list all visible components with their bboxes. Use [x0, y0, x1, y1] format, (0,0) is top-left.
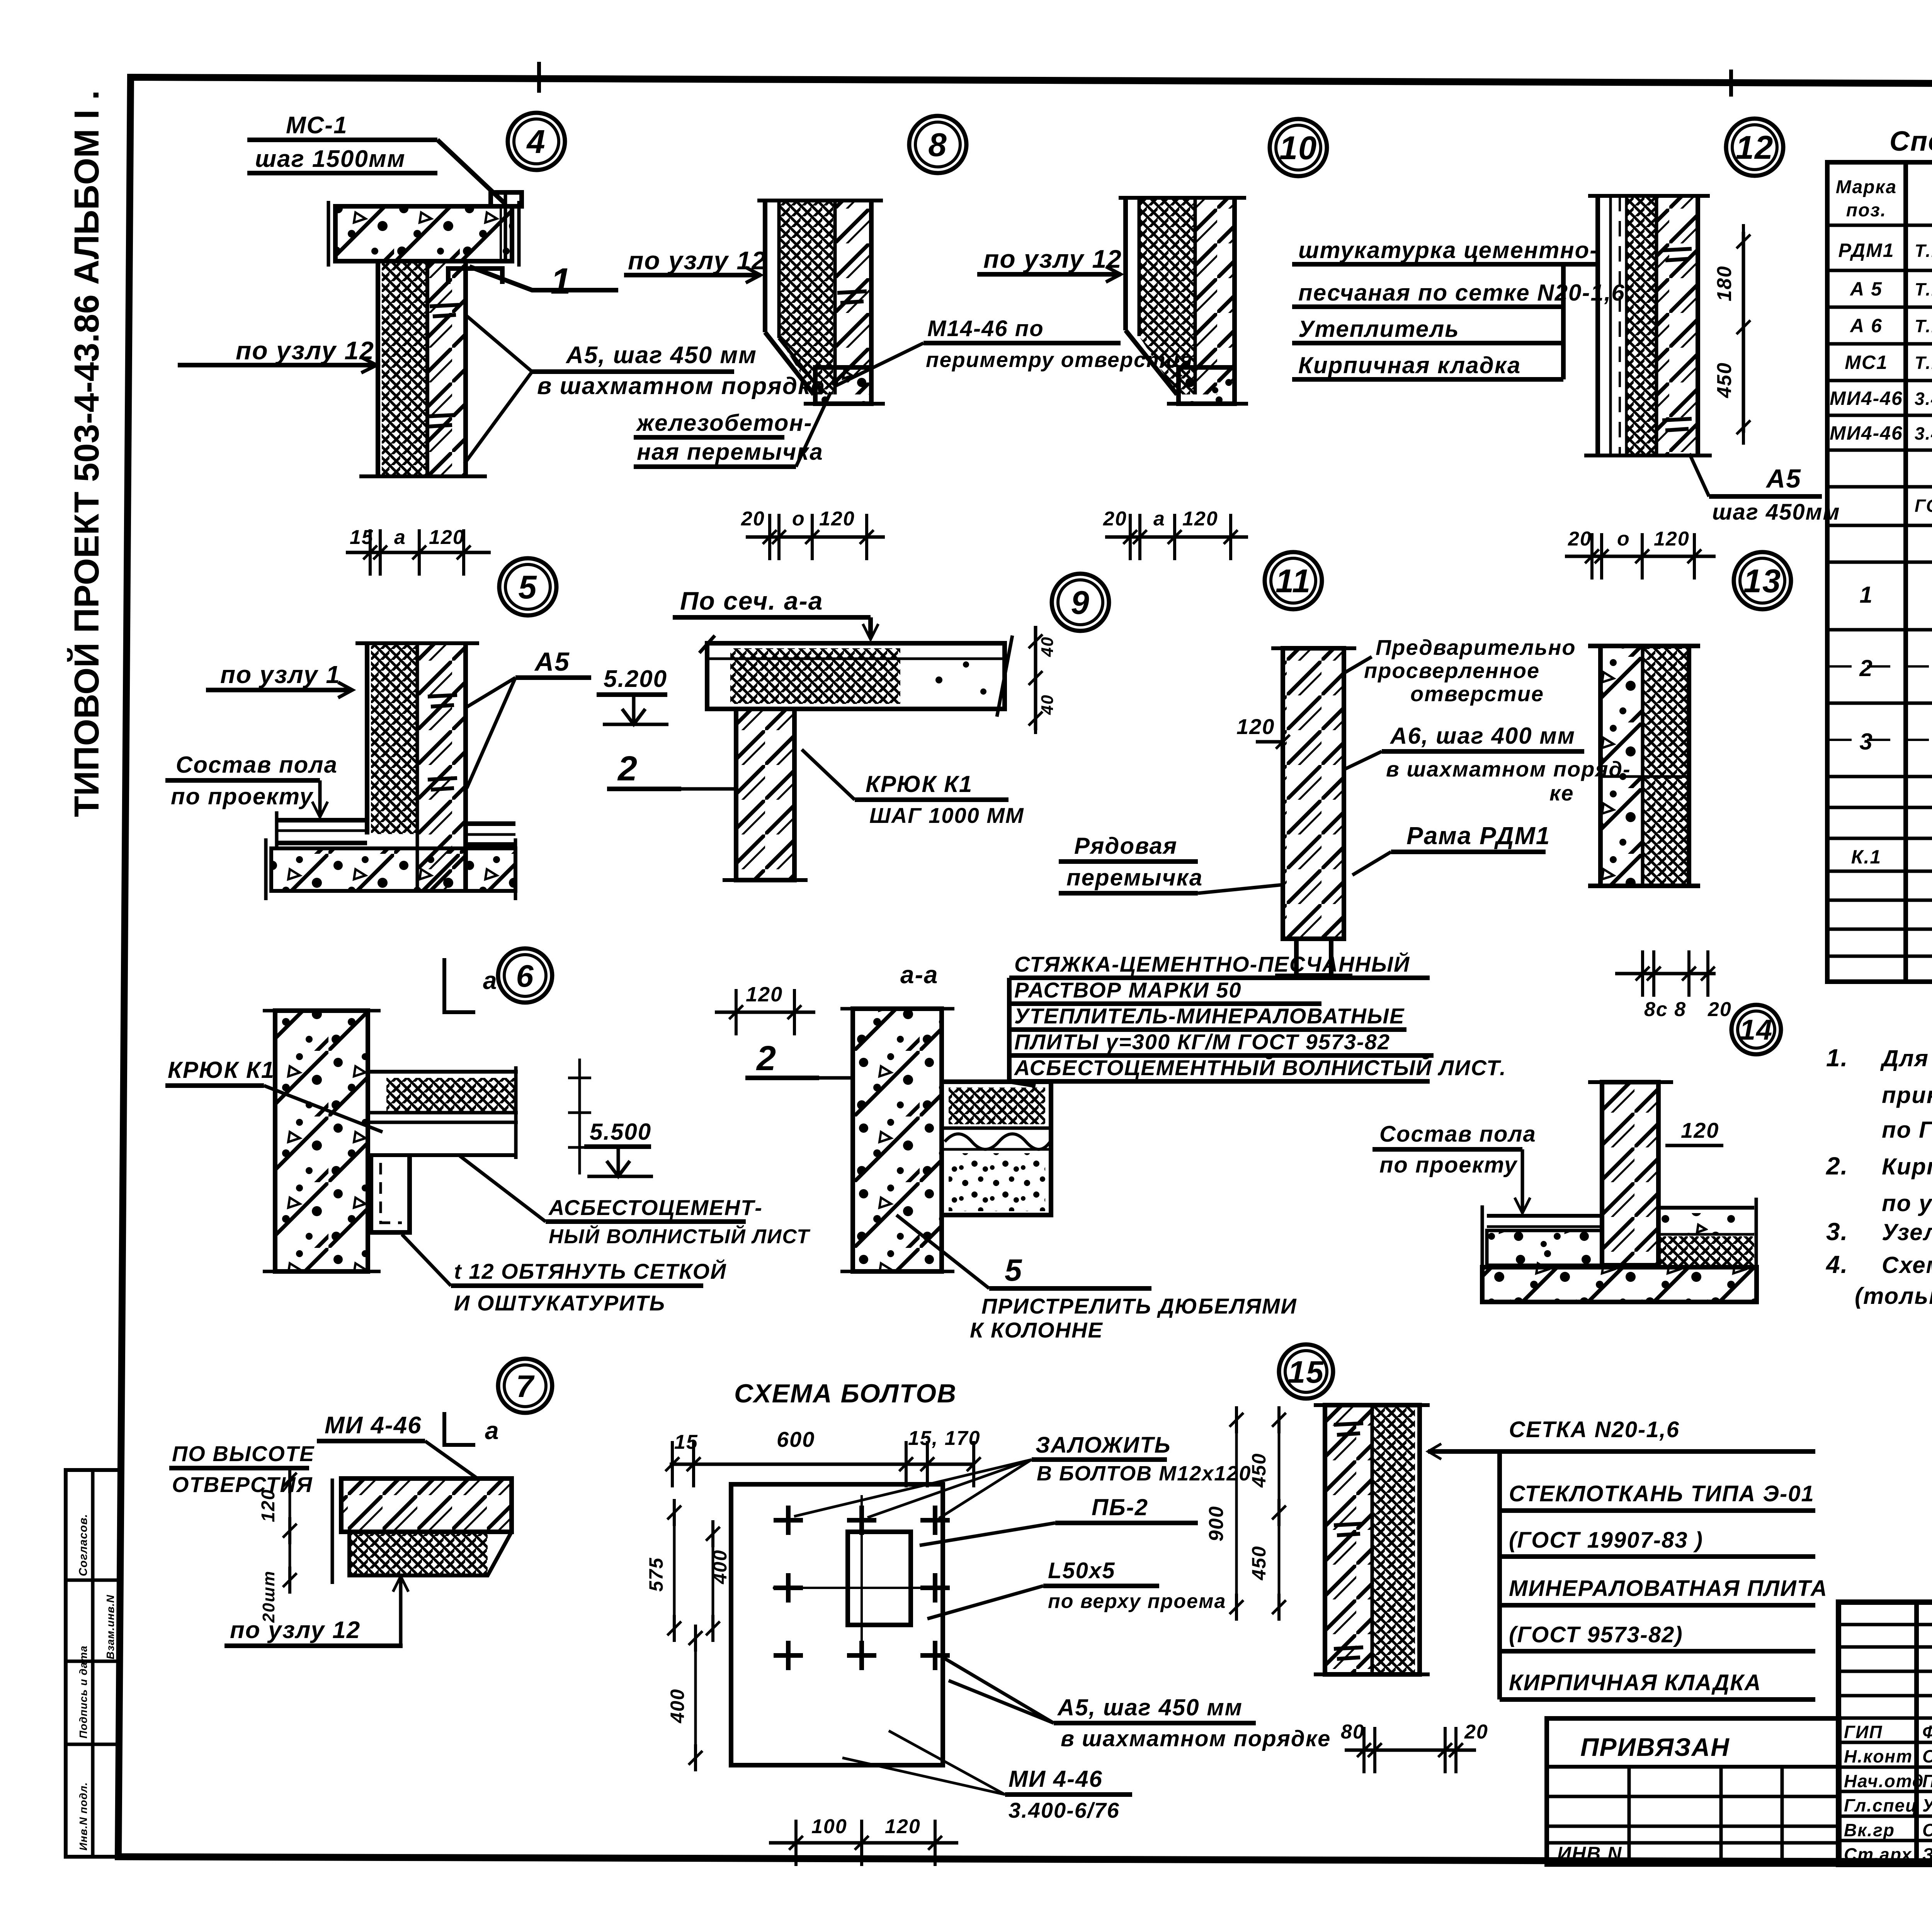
svg-text:СТЯЖКА-ЦЕМЕНТНО-ПЕСЧАННЫЙ: СТЯЖКА-ЦЕМЕНТНО-ПЕСЧАННЫЙ — [1014, 952, 1410, 976]
svg-text:МИ 4-46: МИ 4-46 — [325, 1412, 422, 1439]
svg-text:2.: 2. — [1826, 1152, 1848, 1180]
svg-text:СХЕМА БОЛТОВ: СХЕМА БОЛТОВ — [734, 1379, 957, 1408]
svg-text:ШАГ 1000 ММ: ШАГ 1000 ММ — [869, 803, 1024, 828]
svg-text:4.: 4. — [1825, 1251, 1848, 1278]
svg-text:20: 20 — [1568, 528, 1592, 550]
svg-text:Рама РДМ1: Рама РДМ1 — [1406, 822, 1550, 850]
svg-text:20: 20 — [1464, 1721, 1488, 1743]
svg-text:1.: 1. — [1826, 1044, 1848, 1072]
svg-text:о: о — [1617, 528, 1630, 550]
svg-text:14: 14 — [1740, 1014, 1773, 1046]
svg-text:А6, шаг 400 мм: А6, шаг 400 мм — [1389, 723, 1575, 749]
svg-text:АСБЕСТОЦЕМЕНТНЫЙ ВОЛНИСТЫЙ ЛИ: АСБЕСТОЦЕМЕНТНЫЙ ВОЛНИСТЫЙ ЛИСТ. — [1014, 1055, 1507, 1080]
svg-text:7: 7 — [516, 1369, 535, 1404]
svg-text:шаг 450мм: шаг 450мм — [1712, 500, 1840, 525]
svg-text:по ГОСТ 9573 -82: по ГОСТ 9573 -82 — [1882, 1117, 1932, 1143]
svg-text:20: 20 — [741, 508, 765, 530]
svg-text:в шахматном порядке: в шахматном порядке — [537, 373, 825, 399]
svg-text:3: 3 — [1859, 729, 1873, 755]
svg-text:М14-46 по: М14-46 по — [927, 316, 1044, 341]
svg-text:2: 2 — [756, 1039, 777, 1078]
svg-text:5.500: 5.500 — [590, 1119, 651, 1145]
svg-text:в шахматном поряд-: в шахматном поряд- — [1386, 757, 1631, 781]
svg-text:400: 400 — [667, 1689, 688, 1723]
svg-text:шаг 1500мм: шаг 1500мм — [255, 146, 406, 172]
svg-text:МС-1: МС-1 — [286, 112, 348, 139]
svg-text:а: а — [1153, 508, 1165, 530]
svg-text:10: 10 — [1279, 130, 1318, 167]
svg-text:6: 6 — [516, 959, 534, 994]
svg-text:40: 40 — [1038, 694, 1057, 715]
svg-text:L50х5: L50х5 — [1048, 1558, 1115, 1583]
svg-text:ИНВ.N: ИНВ.N — [1557, 1843, 1622, 1864]
svg-text:К КОЛОННЕ: К КОЛОННЕ — [970, 1318, 1103, 1342]
svg-text:ке: ке — [1549, 781, 1574, 805]
svg-text:по узлу 2 на листе 9: по узлу 2 на листе 9 — [1882, 1190, 1932, 1216]
svg-text:Т.П 503-4-43.86-КЖ-А5: Т.П 503-4-43.86-КЖ-А5 — [1915, 279, 1932, 299]
svg-text:по проекту: по проекту — [171, 783, 314, 809]
svg-text:КРЮК К1: КРЮК К1 — [168, 1057, 275, 1083]
svg-text:ГИП: ГИП — [1844, 1722, 1883, 1742]
svg-text:по узлу 12: по узлу 12 — [983, 245, 1122, 273]
svg-text:120: 120 — [258, 1489, 279, 1522]
svg-text:РАСТВОР МАРКИ 50: РАСТВОР МАРКИ 50 — [1014, 978, 1242, 1002]
svg-text:Нач.отд: Нач.отд — [1844, 1771, 1924, 1791]
svg-text:Удали: Удали — [1922, 1795, 1932, 1815]
svg-text:а: а — [483, 967, 498, 994]
svg-text:МИ4-46: МИ4-46 — [1830, 387, 1903, 409]
svg-text:песчаная по сетке N20-1,6: песчаная по сетке N20-1,6 — [1298, 280, 1625, 306]
svg-text:ПБ-2: ПБ-2 — [1092, 1494, 1148, 1520]
svg-text:5: 5 — [518, 569, 537, 606]
svg-text:приняты минераловатные плиты: приняты минераловатные плиты γ=300 кг/м — [1882, 1082, 1932, 1108]
svg-text:20: 20 — [1708, 998, 1732, 1021]
svg-text:8с 8: 8с 8 — [1644, 998, 1686, 1021]
svg-text:180: 180 — [1713, 265, 1736, 301]
svg-text:Гл.спец: Гл.спец — [1844, 1795, 1918, 1815]
svg-text:120: 120 — [1236, 714, 1275, 739]
svg-text:по верху проема: по верху проема — [1048, 1590, 1226, 1613]
svg-text:Т.П 503-4-43.86-КЖ-МС1: Т.П 503-4-43.86-КЖ-МС1 — [1915, 353, 1932, 373]
svg-text:900: 900 — [1205, 1506, 1228, 1541]
svg-text:по узлу 12: по узлу 12 — [628, 246, 767, 275]
svg-text:13: 13 — [1743, 563, 1782, 600]
svg-text:3.400-6/76: 3.400-6/76 — [1009, 1798, 1120, 1822]
svg-text:по узлу 12: по узлу 12 — [236, 336, 374, 365]
svg-text:2: 2 — [1859, 655, 1873, 681]
svg-text:120: 120 — [885, 1815, 921, 1838]
svg-text:ная перемычка: ная перемычка — [637, 439, 823, 465]
svg-text:К.1: К.1 — [1851, 846, 1881, 868]
svg-text:5: 5 — [1005, 1253, 1023, 1287]
svg-text:И ОШТУКАТУРИТЬ: И ОШТУКАТУРИТЬ — [454, 1291, 665, 1315]
svg-text:ЗАЛОЖИТЬ: ЗАЛОЖИТЬ — [1036, 1433, 1171, 1458]
svg-text:Схема болтов дана для отверсти: Схема болтов дана для отверстий размером… — [1882, 1252, 1932, 1278]
svg-text:Т.П.503-4-43.86-КЖ-РДМ1: Т.П.503-4-43.86-КЖ-РДМ1 — [1915, 241, 1932, 261]
svg-text:Строкова: Строкова — [1922, 1820, 1932, 1840]
svg-text:КРЮК К1: КРЮК К1 — [866, 771, 973, 797]
svg-text:СЕТКА N20-1,6: СЕТКА N20-1,6 — [1509, 1417, 1680, 1442]
svg-text:120: 120 — [429, 526, 465, 549]
svg-text:Кирпичные перегородки венткаме: Кирпичные перегородки венткамер армирова… — [1882, 1154, 1932, 1179]
svg-text:ГОСТ 8423-75: ГОСТ 8423-75 — [1915, 496, 1932, 516]
svg-text:Согласов.: Согласов. — [77, 1514, 90, 1576]
svg-text:Фомкер: Фомкер — [1922, 1722, 1932, 1742]
svg-text:А5: А5 — [1765, 464, 1801, 493]
svg-text:Инв.N подл.: Инв.N подл. — [77, 1782, 89, 1851]
svg-text:МИ 4-46: МИ 4-46 — [1009, 1766, 1103, 1792]
svg-text:575: 575 — [645, 1557, 667, 1592]
svg-text:ПО ВЫСОТЕ: ПО ВЫСОТЕ — [172, 1441, 315, 1466]
svg-text:3.400-6/76: 3.400-6/76 — [1915, 389, 1932, 409]
svg-text:Н.конт: Н.конт — [1844, 1746, 1913, 1766]
svg-text:15: 15 — [1288, 1355, 1324, 1390]
svg-text:КИРПИЧНАЯ КЛАДКА: КИРПИЧНАЯ КЛАДКА — [1509, 1670, 1762, 1695]
svg-text:Т.П. 503-4-43.86-КЖ-А6: Т.П. 503-4-43.86-КЖ-А6 — [1915, 316, 1932, 336]
svg-text:а: а — [394, 526, 406, 549]
svg-text:t 12 ОБТЯНУТЬ СЕТКОЙ: t 12 ОБТЯНУТЬ СЕТКОЙ — [454, 1259, 726, 1283]
svg-text:80: 80 — [1341, 1721, 1365, 1743]
svg-text:в шахматном порядке: в шахматном порядке — [1061, 1726, 1331, 1751]
svg-text:40: 40 — [1038, 636, 1057, 657]
svg-text:Утеплитель: Утеплитель — [1298, 316, 1459, 342]
svg-text:3.: 3. — [1826, 1218, 1848, 1246]
svg-text:УТЕПЛИТЕЛЬ-МИНЕРАЛОВАТНЫЕ: УТЕПЛИТЕЛЬ-МИНЕРАЛОВАТНЫЕ — [1014, 1004, 1405, 1028]
svg-text:просверленное: просверленное — [1364, 658, 1540, 683]
svg-text:МС1: МС1 — [1845, 352, 1888, 373]
svg-text:НЫЙ ВОЛНИСТЫЙ ЛИСТ: НЫЙ ВОЛНИСТЫЙ ЛИСТ — [549, 1225, 811, 1248]
svg-text:ПЛИТЫ γ=300 КГ/М ГОСТ 9573-82: ПЛИТЫ γ=300 КГ/М ГОСТ 9573-82 — [1014, 1030, 1390, 1054]
svg-text:120: 120 — [1182, 508, 1218, 530]
svg-text:ТИПОВОЙ ПРОЕКТ 503-4-43.86: ТИПОВОЙ ПРОЕКТ 503-4-43.86 АЛЬБОМ I . — [66, 90, 106, 817]
svg-text:А5, шаг 450 мм: А5, шаг 450 мм — [565, 342, 757, 369]
svg-text:600: 600 — [777, 1427, 815, 1451]
svg-text:15, 170: 15, 170 — [908, 1427, 981, 1450]
svg-text:штукатурка цементно-: штукатурка цементно- — [1298, 237, 1598, 263]
svg-text:8: 8 — [928, 127, 947, 163]
svg-text:По сеч. а-а: По сеч. а-а — [680, 586, 823, 615]
svg-text:отверстие: отверстие — [1410, 681, 1544, 706]
svg-text:20: 20 — [1103, 508, 1127, 530]
svg-text:4: 4 — [526, 124, 546, 160]
svg-text:1: 1 — [1859, 582, 1873, 608]
svg-text:120: 120 — [819, 508, 855, 530]
svg-text:ПРИСТРЕЛИТЬ ДЮБЕЛЯМИ: ПРИСТРЕЛИТЬ ДЮБЕЛЯМИ — [981, 1294, 1297, 1318]
svg-text:ПРИВЯЗАН: ПРИВЯЗАН — [1580, 1733, 1730, 1761]
svg-text:Состав пола: Состав пола — [1379, 1122, 1536, 1147]
svg-text:Взам.инв.N: Взам.инв.N — [104, 1595, 116, 1660]
svg-text:А 5: А 5 — [1849, 278, 1883, 300]
svg-text:поз.: поз. — [1846, 200, 1886, 221]
svg-text:(ГОСТ 9573-82): (ГОСТ 9573-82) — [1509, 1622, 1683, 1647]
svg-text:МИ4-46: МИ4-46 — [1830, 422, 1903, 444]
svg-text:по проекту: по проекту — [1379, 1152, 1518, 1178]
svg-text:450: 450 — [1713, 362, 1736, 398]
svg-text:А 6: А 6 — [1849, 315, 1883, 336]
svg-text:Спецификация изделий к фра: Спецификация изделий к фрагментам 3÷6 — [1889, 126, 1932, 157]
svg-text:450: 450 — [1248, 1546, 1270, 1581]
svg-text:Узел 1Б замаркирован на листе: Узел 1Б замаркирован на листе 4. — [1882, 1219, 1932, 1245]
svg-text:3.400-6/76: 3.400-6/76 — [1915, 423, 1932, 444]
svg-text:А5: А5 — [534, 647, 570, 676]
svg-text:перемычка: перемычка — [1066, 865, 1203, 891]
svg-text:(только для tн=-40°С): (только для tн=-40°С) — [1855, 1283, 1932, 1309]
svg-text:Рядовая: Рядовая — [1074, 833, 1177, 859]
svg-text:о: о — [792, 508, 805, 530]
svg-text:В БОЛТОВ М12х120: В БОЛТОВ М12х120 — [1037, 1462, 1251, 1485]
svg-text:5.200: 5.200 — [604, 666, 667, 692]
svg-text:по узлу 12: по узлу 12 — [230, 1617, 361, 1643]
svg-text:(ГОСТ 19907-83 ): (ГОСТ 19907-83 ) — [1509, 1528, 1703, 1553]
svg-text:12: 12 — [1736, 129, 1774, 166]
svg-text:Вк.гр: Вк.гр — [1844, 1820, 1895, 1840]
svg-text:а: а — [485, 1417, 500, 1445]
svg-text:120: 120 — [746, 983, 783, 1006]
svg-text:Плэжнике: Плэжнике — [1922, 1771, 1932, 1791]
svg-text:15: 15 — [350, 526, 374, 549]
svg-text:Подпись и дата: Подпись и дата — [77, 1645, 89, 1739]
svg-text:Предварительно: Предварительно — [1376, 635, 1576, 659]
svg-text:а-а: а-а — [900, 961, 939, 989]
svg-text:2: 2 — [617, 749, 638, 788]
svg-text:1: 1 — [551, 261, 572, 302]
svg-text:Для утепления холодных отсеков: Для утепления холодных отсеков венткамер — [1880, 1045, 1932, 1071]
svg-text:120: 120 — [1681, 1118, 1719, 1142]
svg-text:Марка: Марка — [1836, 177, 1897, 197]
svg-text:450: 450 — [1248, 1453, 1270, 1488]
svg-text:120: 120 — [1654, 528, 1690, 550]
svg-text:по узлу 1: по узлу 1 — [220, 661, 340, 688]
svg-text:400: 400 — [709, 1550, 731, 1584]
svg-text:11: 11 — [1276, 563, 1311, 600]
svg-text:9: 9 — [1071, 585, 1090, 621]
svg-text:Кирпичная кладка: Кирпичная кладка — [1298, 352, 1521, 378]
svg-text:15: 15 — [674, 1431, 698, 1453]
svg-text:20шт: 20шт — [259, 1570, 278, 1623]
svg-text:А5, шаг 450 мм: А5, шаг 450 мм — [1057, 1694, 1243, 1720]
svg-text:Охнюкж: Охнюкж — [1922, 1746, 1932, 1766]
svg-text:железобетон-: железобетон- — [636, 410, 813, 436]
svg-text:Состав пола: Состав пола — [176, 752, 338, 778]
svg-text:МИНЕРАЛОВАТНАЯ ПЛИТА: МИНЕРАЛОВАТНАЯ ПЛИТА — [1509, 1576, 1828, 1601]
svg-text:СТЕКЛОТКАНЬ ТИПА Э-01: СТЕКЛОТКАНЬ ТИПА Э-01 — [1509, 1481, 1815, 1506]
svg-text:Зашко: Зашко — [1922, 1844, 1932, 1864]
svg-text:100: 100 — [811, 1815, 847, 1838]
svg-text:АСБЕСТОЦЕМЕНТ-: АСБЕСТОЦЕМЕНТ- — [548, 1195, 763, 1220]
svg-text:РДМ1: РДМ1 — [1838, 240, 1894, 261]
svg-text:Ст.арх: Ст.арх — [1844, 1844, 1912, 1864]
